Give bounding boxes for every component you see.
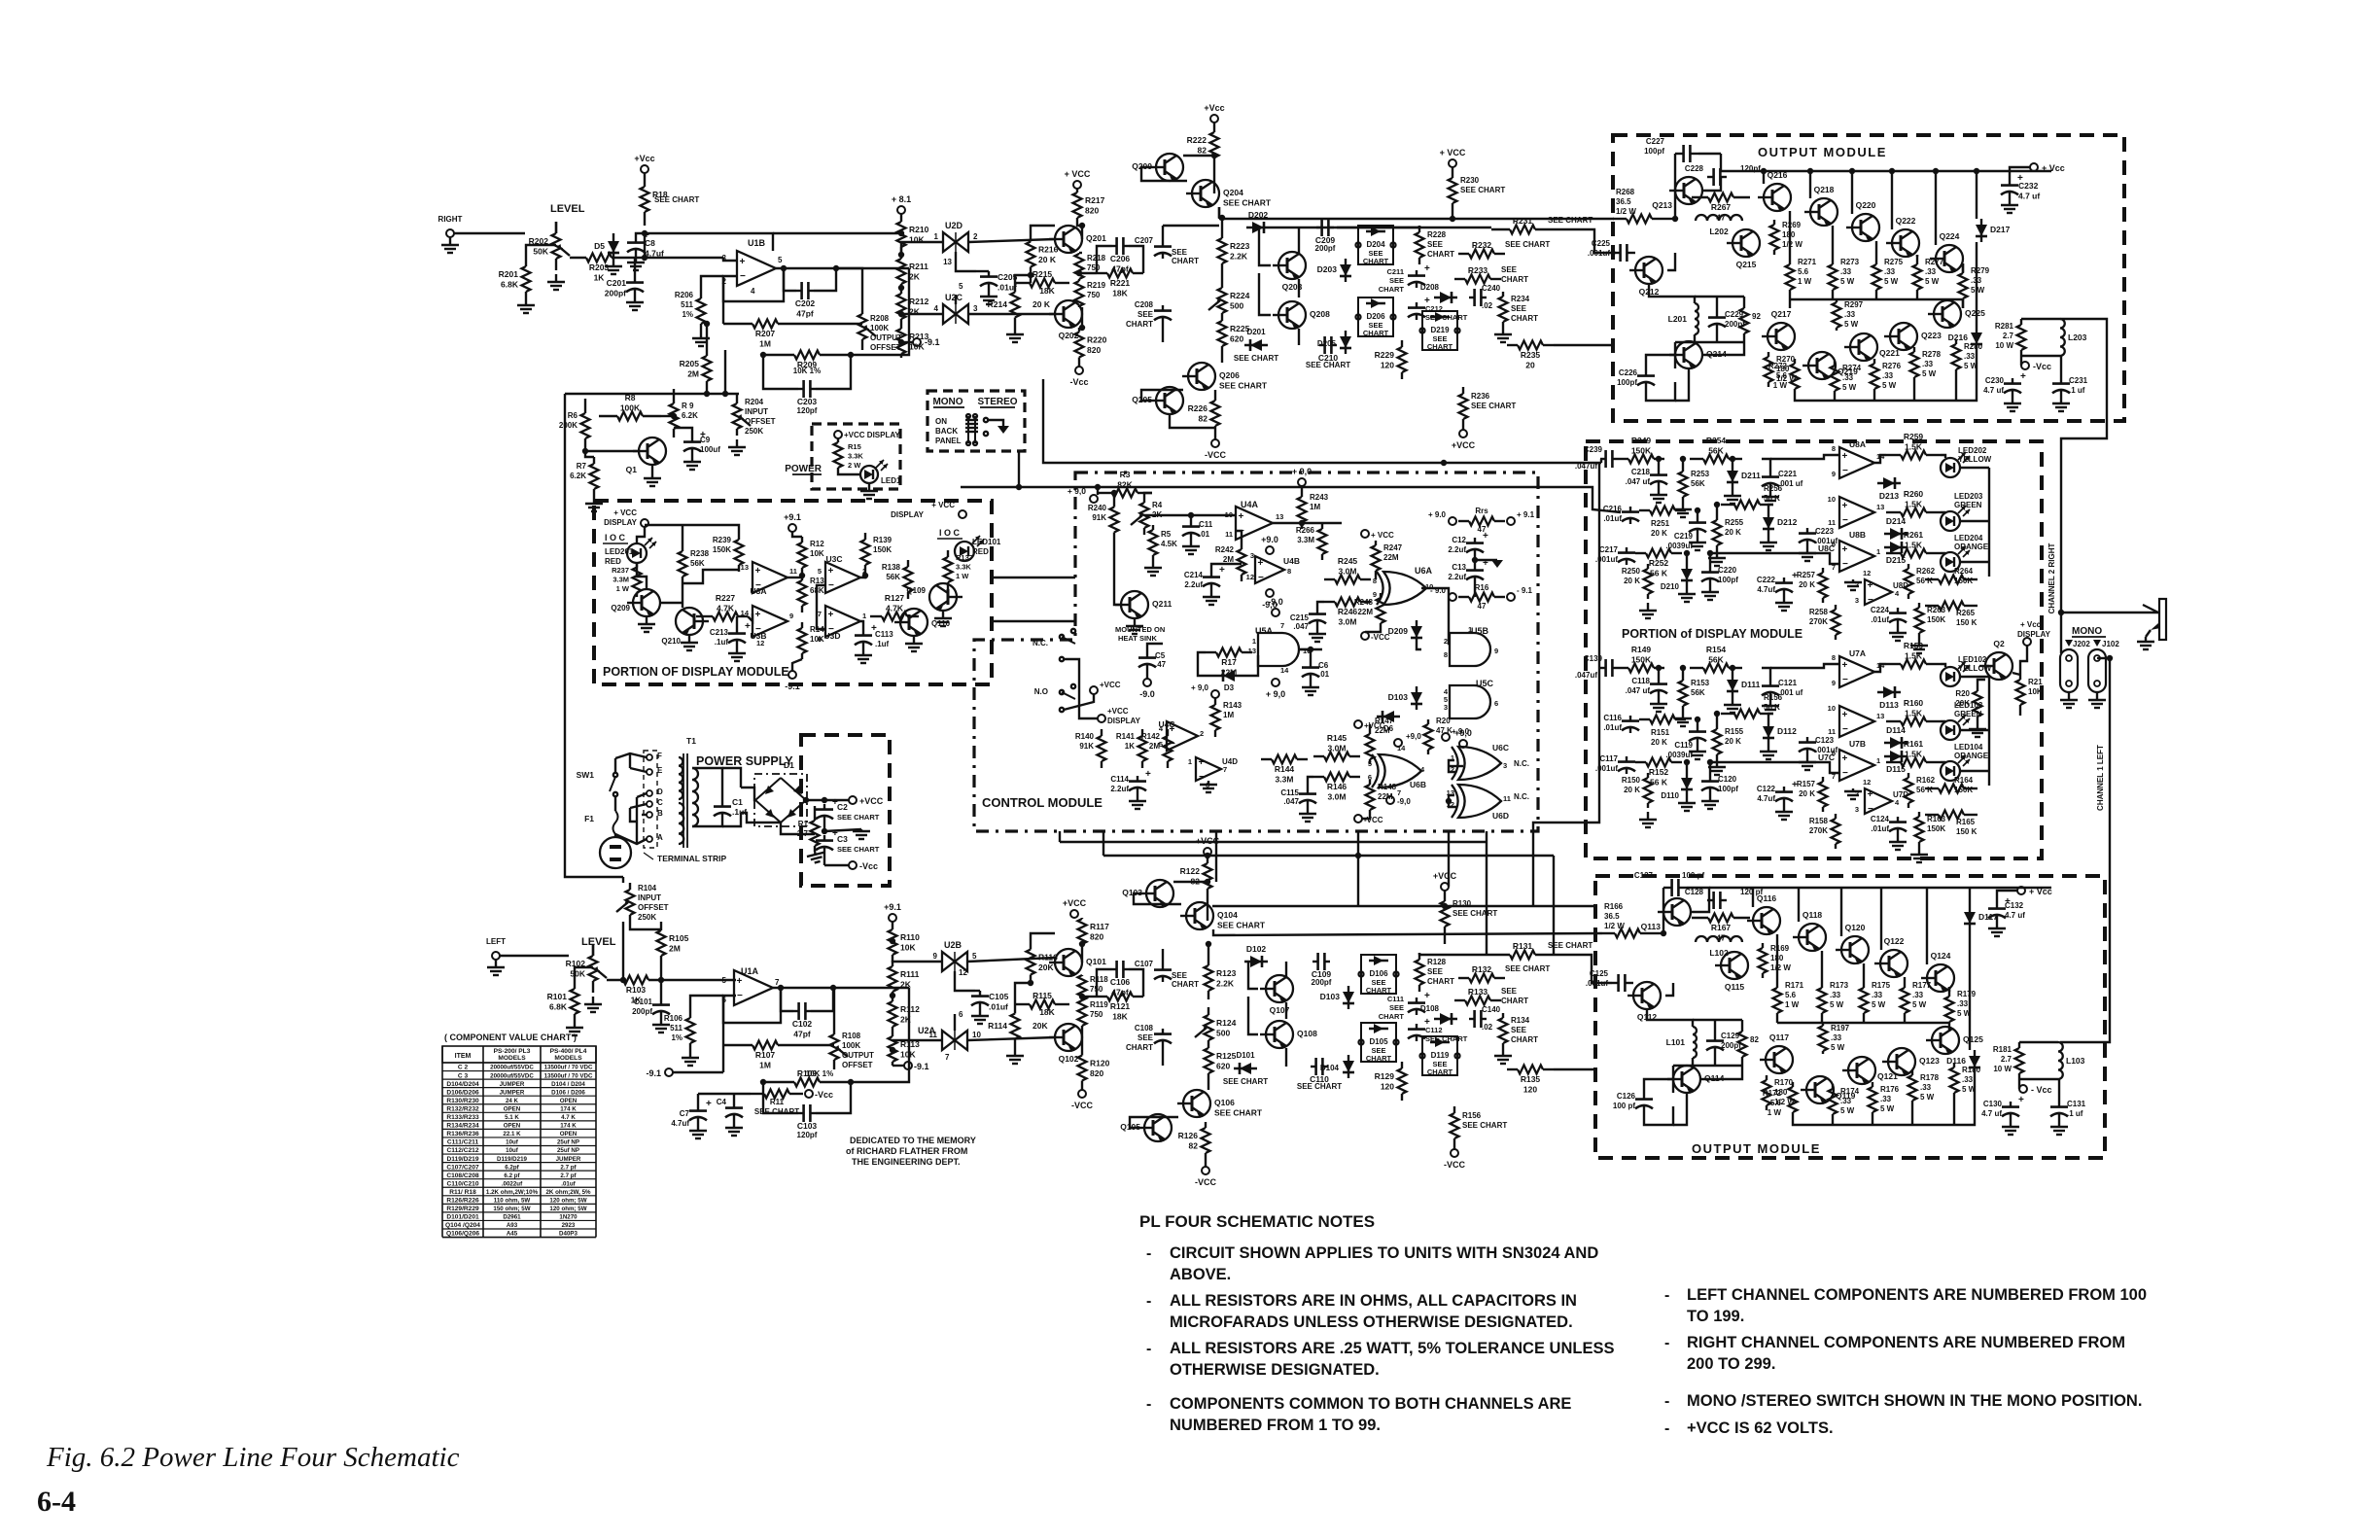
wire [1682,459,1684,467]
resistor R201 [525,261,527,266]
node [1361,632,1369,640]
svg-text:10: 10 [1828,704,1836,713]
svg-text:82: 82 [1750,1035,1759,1044]
svg-text:R20: R20 [1436,717,1451,725]
svg-text:+: + [1842,451,1848,462]
svg-text:.01uf: .01uf [561,1180,576,1187]
svg-text:.33: .33 [1962,1075,1974,1084]
svg-text:3.3M: 3.3M [612,576,629,584]
wire [673,436,675,437]
wire [1832,1119,1834,1125]
node +Vcc [641,165,648,173]
svg-text:5 W: 5 W [1922,369,1937,378]
resistor R154 [1690,667,1703,669]
svg-text:.1 uf: .1 uf [2067,1109,2083,1118]
svg-text:5: 5 [959,282,963,291]
svg-text:SEE CHART: SEE CHART [1460,186,1505,194]
svg-text:56K: 56K [1708,446,1724,456]
ground [449,237,451,245]
gate [1450,633,1490,666]
svg-text:11: 11 [789,567,797,576]
svg-text:174 K: 174 K [560,1123,577,1130]
svg-text:R266: R266 [1296,526,1315,535]
wire [955,971,975,991]
transistor Q102 [1055,1024,1082,1051]
svg-text:22M: 22M [1357,608,1373,616]
svg-text:R276: R276 [1882,362,1902,370]
resistor [1078,253,1080,254]
svg-text:25uf NP: 25uf NP [557,1147,579,1154]
svg-text:+: + [1868,580,1873,591]
resistor [689,1011,691,1018]
resistor [1462,387,1464,394]
ground [1977,721,1978,729]
svg-text:6.2 pf: 6.2 pf [504,1172,520,1179]
svg-text:C106: C106 [1110,977,1131,987]
capacitor [1469,1018,1475,1020]
svg-text:SEE CHART: SEE CHART [1223,1077,1268,1086]
node [1442,733,1450,741]
wire [1064,694,1094,710]
svg-text:2M: 2M [1223,555,1234,564]
svg-text:1.5K: 1.5K [1905,651,1923,661]
resistor R126 [1205,1122,1207,1128]
resistor R260 [1886,511,1901,513]
resistor R203 [570,257,586,259]
svg-text:3: 3 [973,304,978,313]
svg-text:1.2K ohm,2W;10%: 1.2K ohm,2W;10% [486,1189,539,1196]
wire [1691,900,1709,912]
svg-text:22M: 22M [1383,553,1399,562]
transistor Q214 [1675,341,1702,368]
wire [2061,421,2107,653]
svg-text:511: 511 [681,300,693,309]
wire [784,268,796,291]
wire [690,996,723,1011]
wire [1962,299,1964,308]
svg-text:C: C [657,798,663,807]
svg-text:2.2uf: 2.2uf [1448,545,1466,554]
svg-text:R217: R217 [1085,195,1105,205]
svg-text:11: 11 [1828,518,1836,527]
svg-text:110 ohm, 5W: 110 ohm, 5W [494,1198,531,1205]
svg-text:1/2 W: 1/2 W [1770,963,1791,972]
wire [1452,210,1453,218]
transistor Q2 [1985,652,2012,680]
svg-text:7: 7 [945,1053,950,1062]
svg-text:ON: ON [935,417,947,426]
wire [1875,241,1877,255]
capacitor [736,628,738,634]
svg-text:D203: D203 [1317,264,1338,274]
resistor R231 [1491,228,1510,230]
svg-text:INPUT: INPUT [638,893,661,902]
svg-text:DISPLAY: DISPLAY [604,518,638,527]
svg-text:R120: R120 [1090,1059,1110,1068]
wire [1554,955,1612,983]
diode [1377,716,1400,717]
svg-text:.01uf: .01uf [1871,824,1889,833]
resistor [814,815,816,821]
svg-text:D3: D3 [1224,683,1235,692]
wire [2020,646,2027,675]
svg-text:20 K: 20 K [1651,738,1667,747]
module box: POWER SUPPLY [801,735,890,886]
svg-text:10 W: 10 W [1995,341,2013,350]
capacitor [1806,528,1808,534]
capacitor [1307,788,1309,794]
diode D206 [1358,297,1393,336]
svg-text:150K: 150K [1954,786,1973,794]
svg-text:C117: C117 [1599,754,1618,763]
wire [976,270,989,272]
wire [1600,459,1602,463]
wire [722,813,741,826]
svg-text:.02: .02 [1482,1023,1493,1032]
transistor [929,583,957,611]
ground [1783,595,1785,603]
svg-text:U3C: U3C [825,554,842,564]
wire [1554,344,1613,346]
svg-text:R125: R125 [1216,1051,1237,1061]
resistor [629,883,631,890]
svg-text:+: + [1842,753,1848,764]
svg-text:D113: D113 [1879,700,1899,710]
wire [1633,252,1635,254]
node [904,1062,912,1069]
svg-text:C114: C114 [1110,775,1129,784]
resistor R120 [1081,1051,1083,1056]
resistor R113 [892,1032,893,1036]
ground [814,852,817,855]
svg-text:47pf: 47pf [796,309,814,319]
svg-text:22.1 K: 22.1 K [503,1131,521,1137]
svg-text:R211: R211 [909,262,928,271]
wire [1631,982,1633,984]
svg-text:C201: C201 [607,278,627,288]
wire [1102,831,1104,856]
svg-text:C218: C218 [1631,468,1651,476]
analog-switch U2C [943,304,968,324]
wire [575,967,593,983]
svg-text:R154: R154 [1706,645,1727,654]
svg-text:−: − [740,271,746,282]
wire [614,796,616,811]
resistor R223 [1221,229,1223,238]
svg-text:C102: C102 [792,1019,813,1029]
svg-text:SEE CHART: SEE CHART [1217,921,1266,930]
svg-text:56K: 56K [1708,655,1724,665]
svg-text:11: 11 [1225,530,1233,539]
resistor R121 [1097,996,1107,997]
svg-text:+: + [1199,757,1205,768]
wire [1721,170,2051,172]
svg-text:1K: 1K [594,273,606,283]
svg-text:R1: R1 [798,820,809,828]
svg-text:R239: R239 [713,536,732,544]
svg-text:12: 12 [1246,573,1254,581]
resistor R211 [900,255,902,259]
wire [1777,1022,1949,1024]
wire [1874,664,1886,672]
svg-text:LED1: LED1 [881,476,901,485]
svg-text:C140: C140 [1482,1005,1501,1014]
svg-text:50K: 50K [533,247,548,257]
svg-text:C213: C213 [710,628,729,637]
svg-text:Q122: Q122 [1884,936,1905,946]
capacitor [1629,716,1631,721]
svg-text:C116: C116 [1603,714,1622,722]
svg-text:C202: C202 [795,298,816,308]
wire [1285,1048,1287,1067]
resistor [1741,1027,1743,1032]
svg-text:LEVEL: LEVEL [581,936,616,948]
wire [630,808,637,822]
svg-text:MONO: MONO [2072,626,2102,637]
wire [636,797,638,844]
svg-text:56 K: 56 K [1764,494,1780,503]
wire [1874,455,1886,463]
svg-text:C219: C219 [1674,532,1694,541]
diode D214 [1884,533,1907,535]
ground [1014,1048,1016,1056]
svg-text:1.5K: 1.5K [1905,500,1923,509]
svg-text:R234: R234 [1511,295,1530,303]
transistor Q216 [1764,184,1791,211]
svg-text:3: 3 [1855,805,1859,814]
svg-text:100 pf: 100 pf [1613,1102,1635,1110]
wire [1667,253,1675,270]
svg-text:NUMBERED FROM 1 TO 99.: NUMBERED FROM 1 TO 99. [1170,1417,1381,1434]
svg-text:5 W: 5 W [1882,381,1897,390]
node [1449,517,1456,525]
svg-text:−: − [1842,466,1848,476]
svg-text:−: − [1199,772,1205,783]
wire [838,472,860,474]
svg-text:LED204: LED204 [1954,534,1983,542]
svg-text:+ VCC: + VCC [1065,169,1091,179]
svg-text:91K: 91K [1079,742,1094,751]
svg-text:C214: C214 [1184,571,1204,579]
LED [1941,458,1960,477]
wire [622,922,624,980]
svg-text:CHART: CHART [1501,997,1528,1005]
svg-text:E: E [657,766,663,775]
svg-text:4.5K: 4.5K [1161,540,1177,548]
ground [2068,698,2070,700]
svg-text:2923: 2923 [562,1222,576,1229]
wire [1706,176,1708,178]
ground [1682,711,1684,718]
svg-text:120 ohm; 5W: 120 ohm; 5W [549,1198,586,1205]
wire [1285,1002,1287,1019]
capacitor [1162,241,1164,247]
wire [1147,644,1163,652]
svg-text:D119/D219: D119/D219 [497,1156,528,1163]
svg-text:1/2 W: 1/2 W [1604,922,1625,930]
wire [1082,996,1097,997]
wire [1554,229,1616,253]
node [2019,1085,2027,1093]
svg-text:Q224: Q224 [1940,231,1960,241]
svg-text:R126: R126 [1178,1131,1199,1140]
svg-text:9: 9 [1832,679,1836,687]
ground [2145,637,2147,642]
wire [1475,559,1497,561]
svg-text:C119: C119 [1674,741,1693,750]
svg-text:13500uf / 70 VDC: 13500uf / 70 VDC [544,1072,593,1079]
svg-text:U8B: U8B [1849,530,1866,540]
wire [975,990,980,992]
svg-text:MODELS: MODELS [498,1055,526,1062]
transistor [1850,333,1877,361]
svg-text:C3: C3 [837,834,848,844]
transistor [1806,1076,1834,1103]
capacitor [1629,507,1631,512]
wire [2021,355,2060,357]
svg-text:+: + [1424,991,1430,1001]
svg-text:R138: R138 [882,563,901,572]
svg-text:D: D [657,787,663,796]
wire [692,768,722,801]
ground [495,960,497,967]
resistor R133 [1454,999,1465,1001]
capacitor [1897,817,1899,822]
svg-text:+VCC: +VCC [1107,707,1129,716]
svg-text:C228: C228 [1685,164,1704,173]
svg-text:R110: R110 [900,932,920,942]
svg-text:R214: R214 [988,299,1008,309]
svg-text:9: 9 [789,612,793,620]
wire [1248,997,1258,1034]
svg-text:D110: D110 [1661,791,1679,800]
node +9.1 [788,524,796,532]
svg-text:Rrs: Rrs [1475,507,1488,515]
capacitor [1707,176,1714,178]
svg-text:2M: 2M [687,369,699,379]
svg-text:C203: C203 [797,397,818,406]
svg-text:L201: L201 [1668,314,1688,324]
svg-text:R278: R278 [1922,350,1942,359]
svg-text:2K: 2K [900,980,912,990]
resistor [1872,1082,1873,1087]
capacitor [862,630,864,636]
wire [1449,760,1456,772]
resistor [1639,718,1650,720]
diode [1244,344,1268,346]
svg-text:CHART: CHART [1501,275,1528,284]
svg-text:R250: R250 [1622,567,1641,576]
svg-text:U5C: U5C [1476,679,1494,688]
capacitor [1137,776,1138,782]
resistor R3 [1098,492,1112,494]
svg-text:R129/R229: R129/R229 [446,1206,479,1212]
svg-text:CHART: CHART [1427,977,1454,986]
ground C12/C13 [1491,560,1503,568]
svg-text:1 W: 1 W [1798,277,1812,286]
ground [1897,625,1899,633]
svg-text:INPUT: INPUT [745,407,768,416]
svg-text:SEE CHART: SEE CHART [837,813,880,822]
capacitor [2012,378,2013,384]
svg-text:PS-400/ PL4: PS-400/ PL4 [550,1048,587,1055]
svg-text:+9.1: +9.1 [784,512,801,522]
capacitor [1806,737,1808,743]
capacitor [1707,899,1714,901]
svg-text:C221: C221 [1778,470,1798,478]
node -Vcc [1075,367,1083,374]
wire [1776,934,1778,978]
wire [2068,692,2070,698]
ground [988,289,990,297]
resistor R129 [1401,1062,1403,1068]
svg-text:C108: C108 [1135,1024,1154,1032]
resistor [1911,1070,1913,1075]
svg-text:3.0M: 3.0M [1328,744,1347,753]
wire [1207,1073,1209,1090]
svg-text:R259: R259 [1904,432,1924,441]
svg-text:R262: R262 [1916,567,1936,576]
wire [1716,297,1718,312]
wire [1015,983,1031,1004]
node +9.0 [1266,546,1274,554]
svg-text:ITEM: ITEM [455,1053,472,1060]
ground [1697,535,1698,542]
capacitor [1658,470,1660,475]
svg-text:C101: C101 [634,997,653,1006]
wire [736,394,738,397]
svg-text:.33: .33 [1957,999,1969,1008]
svg-text:200pf: 200pf [1315,244,1336,253]
wire [722,1045,724,1072]
svg-text:R201: R201 [499,269,519,279]
svg-text:U1B: U1B [748,238,766,248]
ground [1502,1048,1504,1056]
resistor R160 [1886,720,1901,722]
ground [2058,1119,2060,1127]
resistor [1913,347,1915,352]
svg-text:R197: R197 [1831,1024,1850,1032]
wire [954,1014,956,1031]
wire [2019,1041,2058,1043]
wire [2021,318,2060,320]
wire [1741,1062,1743,1066]
node -9,0 [1266,589,1274,597]
resistor [1458,596,1469,598]
svg-text:PORTION OF DISPLAY MODULE: PORTION OF DISPLAY MODULE [603,665,789,679]
svg-text:R221: R221 [1110,278,1131,288]
svg-text:C105: C105 [989,992,1009,1001]
svg-text:10K 1%: 10K 1% [806,1069,833,1078]
svg-text:C206: C206 [1110,254,1131,263]
svg-text:+: + [1239,511,1244,522]
resistor [1925,605,1939,607]
svg-text:47: 47 [1478,602,1487,611]
wire [1462,426,1464,430]
svg-text:SEE: SEE [1137,1033,1154,1042]
wire [1059,831,1061,842]
capacitor C109 [1312,961,1318,962]
transistor Q200 [1156,154,1183,181]
svg-text:-: - [1146,1293,1151,1310]
capacitor [733,1102,735,1108]
svg-text:LEVEL: LEVEL [550,203,585,215]
svg-text:C113: C113 [875,630,893,639]
wire [1553,856,1555,955]
wire [834,987,909,989]
wire [1162,226,1164,241]
svg-text:8: 8 [1444,650,1448,659]
